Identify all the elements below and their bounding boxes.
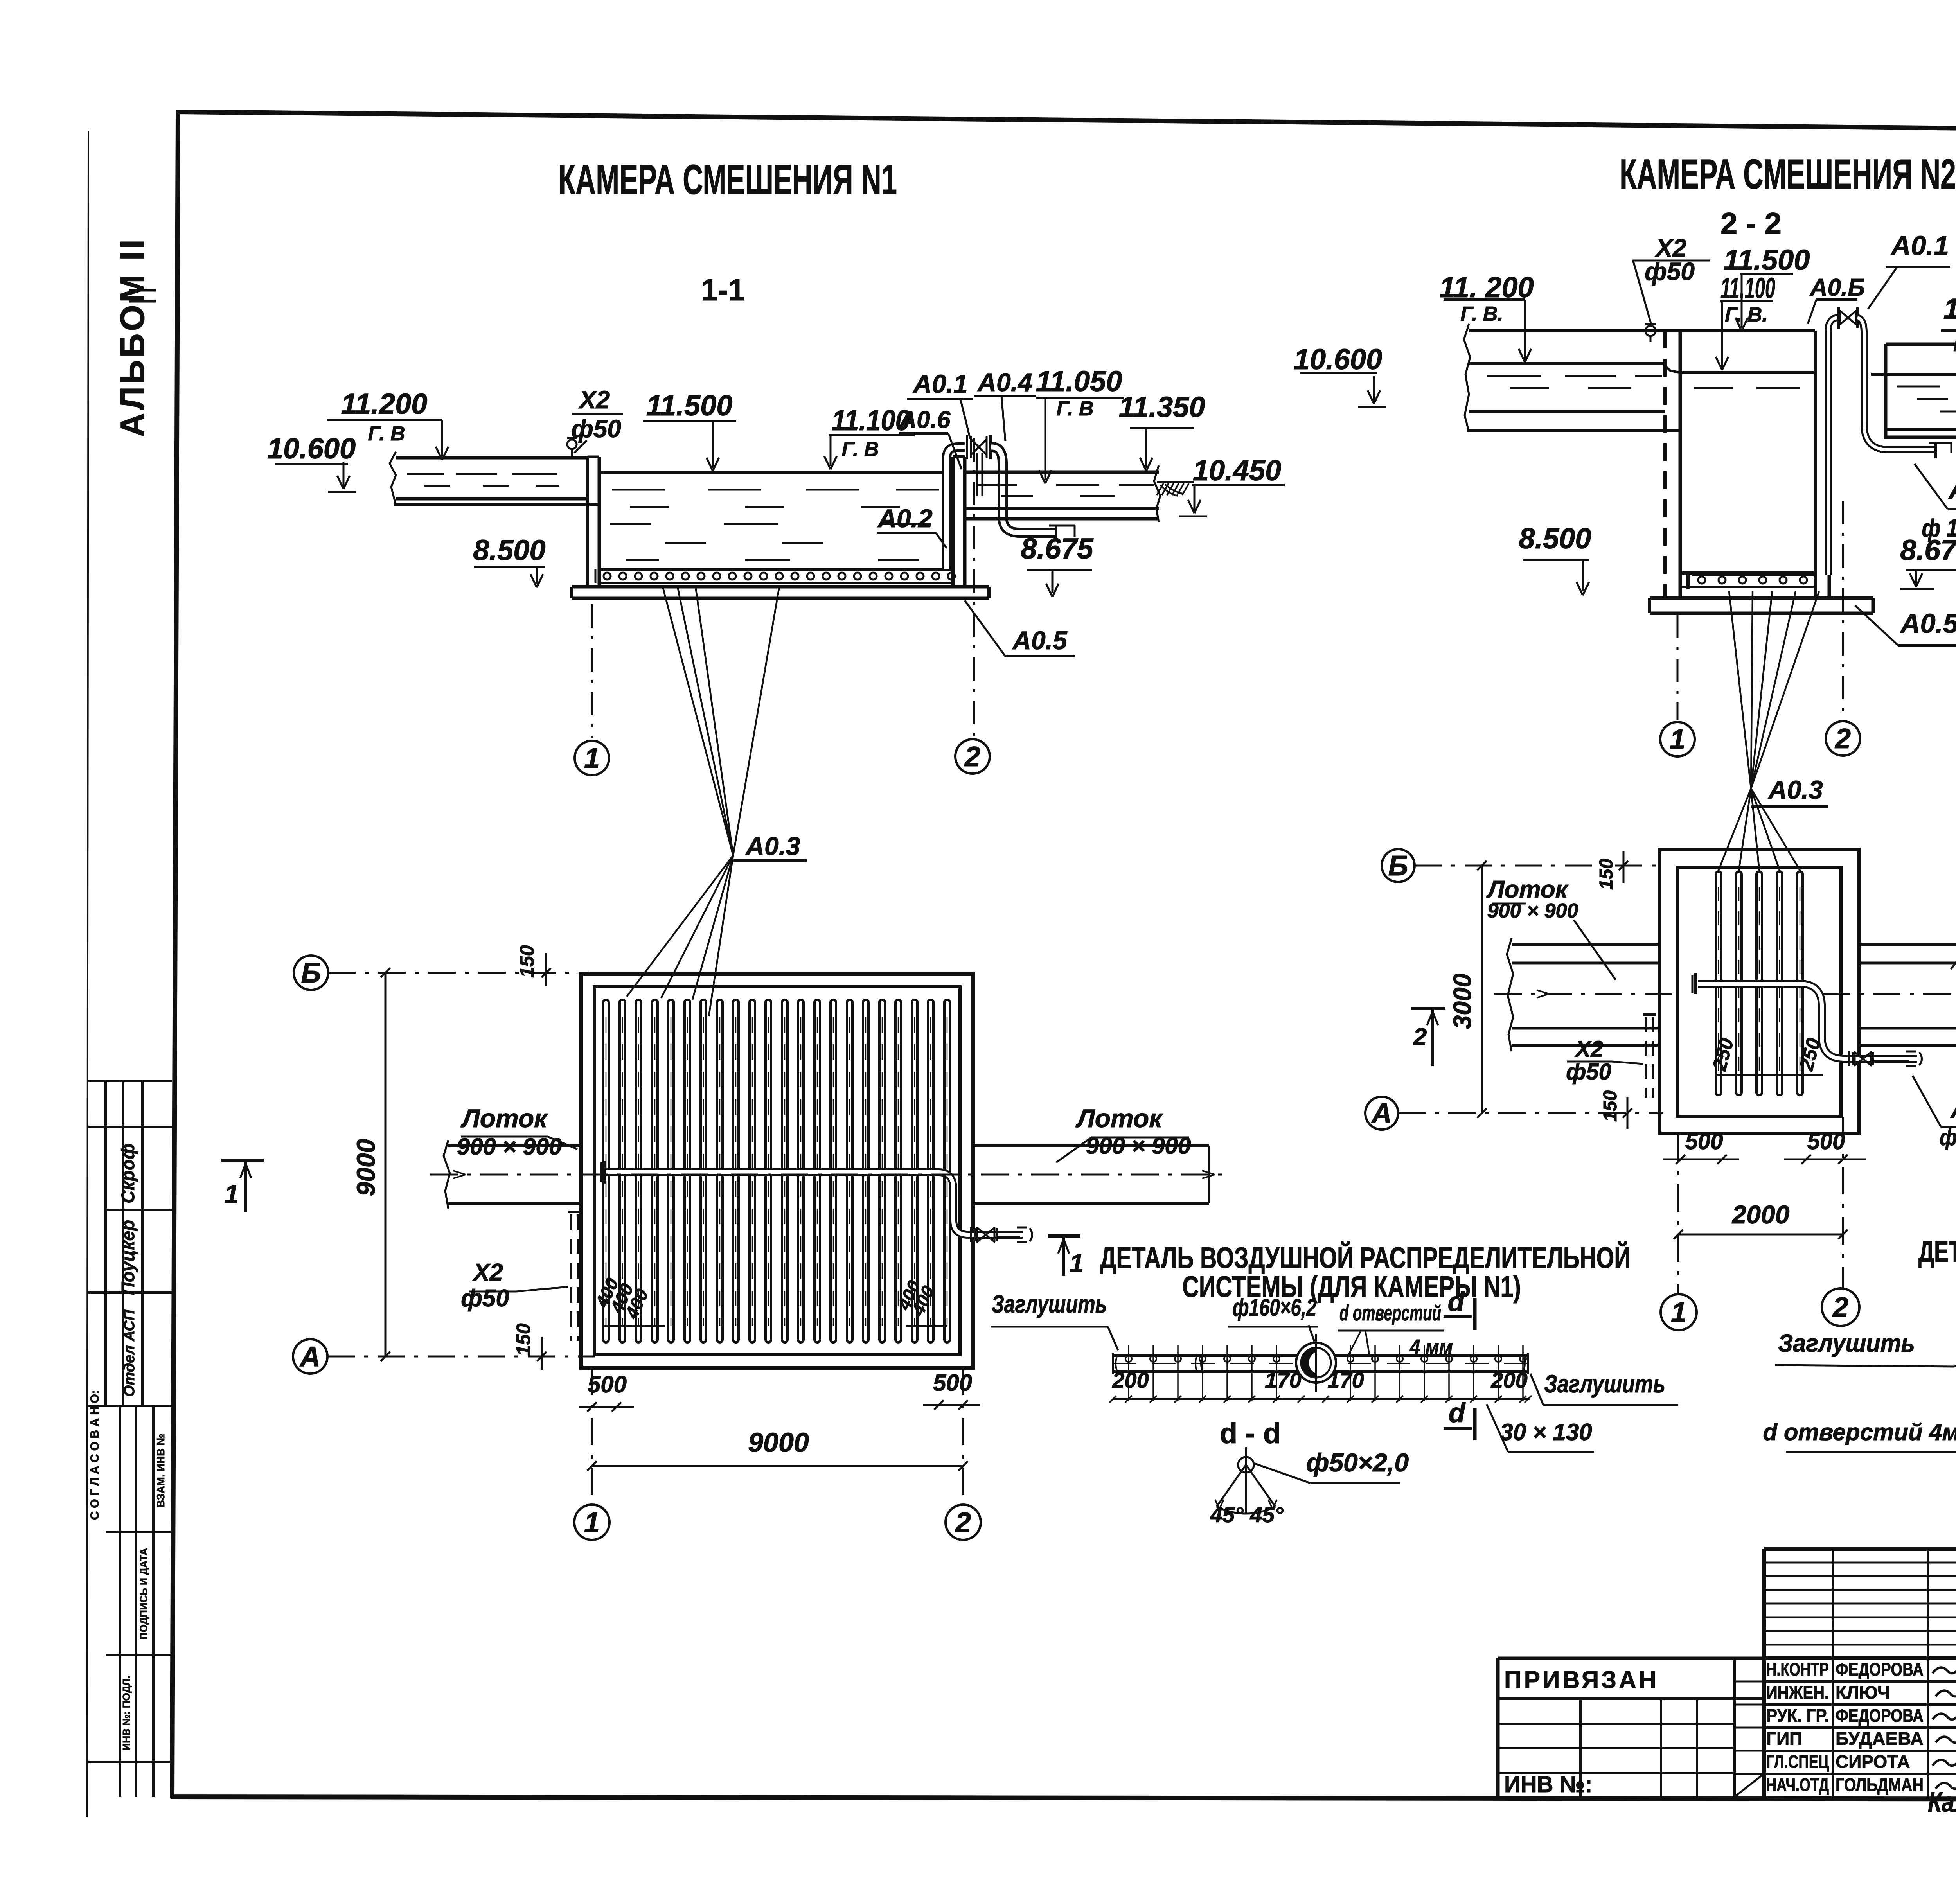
svg-text:ГОЛЬДМАН: ГОЛЬДМАН (1836, 1775, 1924, 1795)
svg-text:Б: Б (1388, 850, 1408, 882)
svg-text:1: 1 (225, 1179, 239, 1208)
svg-text:8.500: 8.500 (473, 534, 545, 566)
svg-text:Х2: Х2 (578, 386, 610, 414)
svg-text:Б: Б (301, 957, 321, 989)
svg-text:Г. В.: Г. В. (1953, 333, 1956, 356)
svg-text:ПРИВЯЗАН: ПРИВЯЗАН (1504, 1667, 1659, 1694)
svg-text:ГЛ.СПЕЦ: ГЛ.СПЕЦ (1766, 1751, 1829, 1772)
svg-text:СИРОТА: СИРОТА (1836, 1751, 1910, 1772)
svg-text:1-1: 1-1 (701, 273, 745, 307)
svg-text:ГИП: ГИП (1766, 1728, 1802, 1749)
svg-text:4 мм: 4 мм (1409, 1335, 1453, 1359)
svg-text:2: 2 (964, 741, 980, 772)
svg-text:500: 500 (1685, 1129, 1723, 1154)
svg-text:11.350: 11.350 (1119, 391, 1205, 423)
svg-text:d: d (1448, 1286, 1465, 1317)
svg-text:Заглушить: Заглушить (1544, 1370, 1665, 1398)
svg-text:11.100: 11.100 (832, 404, 910, 436)
svg-text:А0.Б: А0.Б (1809, 274, 1865, 301)
svg-text:45°: 45° (1210, 1502, 1244, 1527)
svg-text:150: 150 (1596, 859, 1617, 890)
svg-text:ДЕТАЛЬ ВОЗДУШНОЙ РАСПРЕДЕЛИТЕЛ: ДЕТАЛЬ ВОЗДУШНОЙ РАСПРЕДЕЛИТЕЛЬНОЙ (1100, 1241, 1631, 1275)
svg-text:А0.2: А0.2 (877, 504, 933, 533)
svg-text:ИНВ №: ПОДЛ.: ИНВ №: ПОДЛ. (120, 1676, 132, 1751)
svg-text:2: 2 (955, 1507, 971, 1538)
svg-text:А0.3: А0.3 (745, 832, 800, 860)
svg-text:А0.5: А0.5 (1900, 608, 1956, 639)
svg-text:Г. В: Г. В (841, 438, 879, 461)
svg-text:1: 1 (1070, 1248, 1084, 1277)
svg-text:150: 150 (516, 945, 538, 978)
svg-text:А0.4: А0.4 (1948, 474, 1956, 505)
svg-text:А0.3: А0.3 (1767, 775, 1823, 804)
svg-text:Кальковал Коршунова 21126-02: Кальковал Коршунова 21126-02 (1928, 1787, 1956, 1818)
svg-text:200: 200 (1490, 1368, 1527, 1392)
svg-text:11.200: 11.200 (341, 388, 428, 420)
svg-text:200: 200 (1112, 1368, 1149, 1392)
svg-text:А0.4: А0.4 (1950, 1096, 1956, 1123)
svg-text:ф 159×4: ф 159×4 (1940, 1125, 1956, 1150)
svg-text:11.500: 11.500 (646, 389, 733, 422)
svg-text:10.600: 10.600 (1294, 343, 1382, 375)
svg-text:ф50×2,0: ф50×2,0 (1306, 1448, 1409, 1477)
svg-text:Г. В.: Г. В. (1460, 303, 1503, 325)
svg-text:КАМЕРА СМЕШЕНИЯ N2: КАМЕРА СМЕШЕНИЯ N2 (1620, 150, 1956, 198)
svg-text:11.050: 11.050 (1036, 365, 1122, 397)
svg-text:ф50: ф50 (461, 1285, 509, 1312)
svg-text:10.600: 10.600 (267, 432, 356, 465)
svg-text:ф50: ф50 (1645, 257, 1695, 286)
svg-text:500: 500 (1807, 1129, 1845, 1154)
svg-text:Отдел АСП: Отдел АСП (121, 1309, 138, 1397)
svg-text:ВЗАМ. ИНВ №: ВЗАМ. ИНВ № (155, 1433, 167, 1507)
svg-text:2000: 2000 (1731, 1200, 1790, 1229)
svg-text:2 - 2: 2 - 2 (1720, 206, 1782, 241)
svg-text:45°: 45° (1250, 1502, 1284, 1527)
svg-text:Поуцкер: Поуцкер (118, 1220, 138, 1295)
svg-text:Г. В: Г. В (368, 422, 405, 445)
svg-text:1: 1 (1670, 724, 1685, 755)
svg-text:ФЕДОРОВА: ФЕДОРОВА (1836, 1659, 1924, 1679)
svg-text:А0.1: А0.1 (1890, 230, 1949, 261)
svg-text:ф160×6,2: ф160×6,2 (1233, 1294, 1317, 1321)
svg-text:11.050: 11.050 (1943, 293, 1956, 325)
svg-text:ИНВ №:: ИНВ №: (1504, 1772, 1593, 1797)
svg-text:150: 150 (1600, 1090, 1621, 1122)
svg-text:8.675: 8.675 (1021, 532, 1094, 565)
svg-text:Лоток: Лоток (460, 1104, 548, 1133)
svg-text:11.100: 11.100 (1720, 272, 1775, 304)
svg-text:А: А (299, 1341, 320, 1372)
svg-text:Лоток: Лоток (1486, 876, 1569, 903)
svg-text:ДЕТАЛЬ ВОЗДУШНОЙ РАСПРЕДЕЛИТЕЛ: ДЕТАЛЬ ВОЗДУШНОЙ РАСПРЕДЕЛИТЕЛЬНОЙ (1918, 1235, 1956, 1268)
svg-text:А0.6: А0.6 (899, 406, 951, 433)
svg-text:РУК. ГР.: РУК. ГР. (1766, 1705, 1829, 1726)
svg-text:2: 2 (1834, 723, 1851, 754)
svg-text:11.500: 11.500 (1724, 244, 1810, 276)
svg-text:500: 500 (588, 1371, 627, 1397)
svg-text:d: d (1449, 1397, 1466, 1428)
svg-text:d - d: d - d (1220, 1417, 1281, 1450)
svg-text:9000: 9000 (748, 1427, 809, 1458)
svg-text:1: 1 (584, 1507, 600, 1538)
svg-text:А: А (1371, 1098, 1392, 1129)
svg-text:А0.5: А0.5 (1012, 626, 1068, 655)
svg-text:С О Г Л А С О В А Н О:: С О Г Л А С О В А Н О: (88, 1390, 101, 1520)
svg-text:Х2: Х2 (1575, 1036, 1604, 1062)
svg-text:КЛЮЧ: КЛЮЧ (1836, 1682, 1890, 1703)
svg-text:1: 1 (584, 743, 600, 774)
svg-text:2: 2 (1413, 1024, 1427, 1051)
svg-text:3000: 3000 (1448, 974, 1476, 1029)
svg-text:1: 1 (1671, 1297, 1686, 1328)
svg-text:170: 170 (1265, 1368, 1301, 1392)
svg-text:Заглушить: Заглушить (1778, 1329, 1915, 1357)
svg-text:30 × 130: 30 × 130 (1500, 1419, 1592, 1445)
svg-text:Х2: Х2 (472, 1259, 503, 1286)
svg-text:9000: 9000 (351, 1139, 380, 1196)
svg-text:ИНЖЕН.: ИНЖЕН. (1766, 1682, 1829, 1703)
svg-text:Г. В: Г. В (1056, 397, 1093, 420)
svg-text:170: 170 (1327, 1368, 1364, 1392)
svg-text:ПОДПИСЬ И ДАТА: ПОДПИСЬ И ДАТА (138, 1548, 149, 1640)
svg-text:ф50: ф50 (1566, 1059, 1611, 1085)
svg-text:НАЧ.ОТД: НАЧ.ОТД (1766, 1775, 1829, 1795)
svg-text:150: 150 (512, 1323, 534, 1356)
svg-text:БУДАЕВА: БУДАЕВА (1836, 1728, 1924, 1749)
svg-text:Лоток: Лоток (1075, 1104, 1163, 1133)
svg-text:8.500: 8.500 (1519, 522, 1591, 555)
svg-text:10.450: 10.450 (1193, 454, 1281, 487)
svg-text:500: 500 (933, 1370, 972, 1396)
svg-text:ф50: ф50 (571, 415, 621, 443)
svg-text:d отверстий 4мм: d отверстий 4мм (1763, 1419, 1956, 1445)
svg-text:8.675: 8.675 (1900, 534, 1956, 566)
svg-text:А0.1: А0.1 (912, 369, 967, 398)
svg-text:d отверстий: d отверстий (1339, 1300, 1441, 1325)
svg-text:АЛЬБОМ II: АЛЬБОМ II (114, 237, 151, 437)
svg-text:2: 2 (1832, 1292, 1848, 1323)
svg-text:ФЕДОРОВА: ФЕДОРОВА (1836, 1705, 1924, 1726)
svg-text:КАМЕРА СМЕШЕНИЯ N1: КАМЕРА СМЕШЕНИЯ N1 (558, 156, 897, 203)
svg-text:Скроф: Скроф (118, 1143, 138, 1203)
svg-text:А0.4: А0.4 (977, 368, 1032, 397)
svg-text:Заглушить: Заглушить (992, 1290, 1107, 1318)
svg-text:Г. В.: Г. В. (1725, 304, 1768, 326)
svg-text:Н.КОНТР: Н.КОНТР (1766, 1659, 1829, 1679)
